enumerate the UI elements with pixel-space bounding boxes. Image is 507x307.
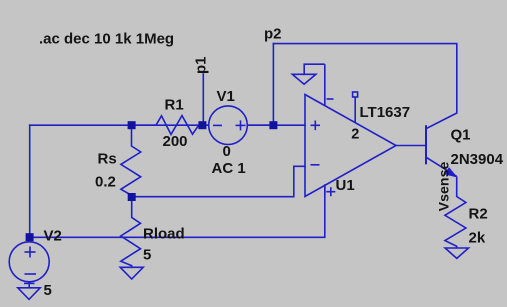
wire: V2 node to opamp V+ horizontal y=236 [30, 185, 325, 237]
svg-text:5: 5 [44, 282, 52, 299]
svg-text:.ac dec 10 1k 1Meg: .ac dec 10 1k 1Meg [39, 31, 174, 48]
ground at opamp V- [292, 64, 325, 84]
wire: main horizontal net, V1 to opamp in+ [247, 124, 305, 126]
wire: left vertical down to V2 [29, 125, 31, 237]
svg-text:Rs: Rs [98, 151, 117, 168]
svg-text:U1: U1 [336, 177, 355, 194]
wire: main horizontal net, left of V1 [30, 124, 209, 126]
transistor Q1 [426, 113, 457, 176]
V+ marker [326, 191, 335, 193]
in+ marker [311, 124, 321, 126]
svg-text:2k: 2k [469, 230, 486, 247]
pin 2 stem and square [354, 97, 356, 123]
svg-text:2: 2 [351, 127, 359, 143]
svg-text:0.2: 0.2 [95, 174, 116, 191]
resistor R2 [445, 176, 466, 248]
svg-text:5: 5 [143, 247, 151, 264]
in- marker [311, 164, 320, 166]
node Rs top junction [128, 121, 136, 129]
node p1 junction [198, 121, 206, 129]
svg-text:AC 1: AC 1 [212, 160, 246, 177]
svg-text:LT1637: LT1637 [360, 104, 411, 121]
svg-text:V1: V1 [217, 88, 235, 105]
resistor R1 [132, 116, 204, 135]
voltage source V2 [9, 237, 49, 287]
svg-text:0: 0 [223, 143, 231, 160]
wire: p2 stub down to main wire [272, 44, 274, 126]
ground under V2 [18, 288, 40, 300]
wire: top horizontal p2 to collector [273, 44, 456, 113]
node Rs bottom junction [128, 193, 136, 201]
ground under R2 [445, 248, 468, 258]
pin V- stem [324, 64, 326, 106]
svg-text:p1: p1 [193, 56, 210, 74]
node junction squares [26, 121, 278, 241]
node p2 junction [269, 121, 277, 129]
resistor Rs [121, 125, 141, 197]
wire: feedback from Rs bottom to inverting input [132, 166, 306, 196]
op-amp U1 [305, 64, 396, 196]
pin V+ stem [324, 185, 326, 195]
svg-text:p2: p2 [264, 26, 282, 43]
svg-text:Vsense: Vsense [437, 161, 453, 211]
svg-text:Q1: Q1 [451, 127, 471, 144]
svg-text:2N3904: 2N3904 [451, 151, 504, 168]
svg-text:V2: V2 [44, 228, 62, 245]
resistor Rload [121, 198, 141, 268]
wire: opamp output to Q1 base [396, 145, 426, 147]
node V2 junction [26, 233, 34, 241]
svg-text:200: 200 [163, 133, 188, 150]
voltage source V1 [204, 106, 274, 145]
svg-text:R2: R2 [469, 205, 488, 222]
wire: p1 stub [202, 74, 204, 125]
V- marker [327, 98, 334, 100]
svg-text:R1: R1 [165, 97, 184, 114]
ground under Rload [120, 267, 143, 279]
svg-text:Rload: Rload [143, 226, 185, 243]
